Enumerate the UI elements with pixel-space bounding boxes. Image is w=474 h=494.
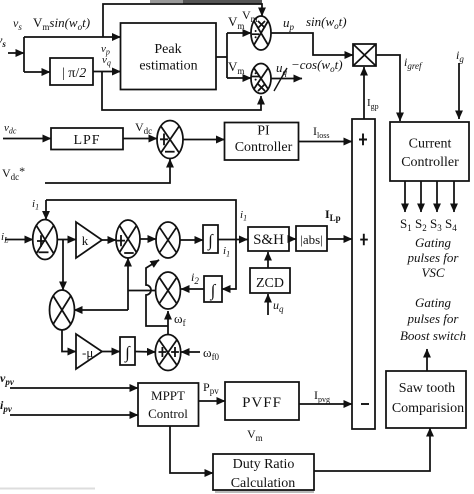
- svg-text:pulses for: pulses for: [407, 250, 460, 265]
- svg-text:∫: ∫: [210, 281, 217, 301]
- svg-text:Control: Control: [148, 406, 188, 421]
- svg-text:Calculation: Calculation: [231, 476, 296, 491]
- svg-text:PI: PI: [257, 124, 270, 139]
- svg-text:∫: ∫: [124, 343, 131, 363]
- svg-text:vs: vs: [0, 33, 6, 49]
- svg-text:Ipvg: Ipvg: [314, 388, 330, 404]
- svg-text:Gating: Gating: [415, 235, 452, 250]
- svg-text:| π/2: | π/2: [62, 66, 86, 81]
- svg-text:Peak: Peak: [154, 42, 181, 57]
- svg-text:Iloss: Iloss: [313, 124, 329, 140]
- svg-text:ipv: ipv: [0, 398, 13, 414]
- svg-text:i1: i1: [240, 209, 247, 223]
- svg-text:uq: uq: [273, 298, 284, 314]
- svg-text:Saw tooth: Saw tooth: [399, 381, 455, 396]
- svg-text:Vmsin(wot): Vmsin(wot): [33, 15, 90, 32]
- svg-text:Vm: Vm: [242, 8, 258, 24]
- svg-text:ωf: ωf: [174, 311, 186, 328]
- svg-text:Vm: Vm: [247, 427, 263, 443]
- svg-text:Vm: Vm: [228, 59, 244, 76]
- svg-text:i2: i2: [191, 270, 199, 286]
- svg-text:vdc: vdc: [4, 122, 17, 136]
- svg-text:sin(wot): sin(wot): [306, 14, 347, 31]
- svg-text:estimation: estimation: [139, 59, 197, 74]
- svg-text:ILp: ILp: [325, 207, 341, 223]
- svg-text:-μ: -μ: [82, 345, 93, 360]
- svg-text:i1: i1: [32, 198, 39, 212]
- svg-text:i1: i1: [223, 245, 230, 259]
- svg-text:uq: uq: [276, 60, 288, 77]
- svg-text:Vdc: Vdc: [135, 120, 152, 136]
- svg-text:Igp: Igp: [367, 97, 379, 111]
- svg-text:igref: igref: [404, 55, 423, 71]
- svg-text:vpv: vpv: [0, 371, 15, 387]
- svg-text:Comparision: Comparision: [392, 401, 464, 416]
- svg-text:ig: ig: [456, 48, 464, 64]
- svg-text:ZCD: ZCD: [256, 276, 284, 291]
- svg-text:up: up: [283, 15, 295, 32]
- svg-text:Gating: Gating: [415, 295, 452, 310]
- svg-text:−cos(wot): −cos(wot): [291, 57, 343, 74]
- svg-text:Vdc*: Vdc*: [2, 164, 25, 182]
- svg-text:Controller: Controller: [235, 140, 293, 155]
- svg-text:k: k: [82, 233, 89, 248]
- svg-text:Ppv: Ppv: [203, 380, 219, 396]
- svg-text:PVFF: PVFF: [242, 395, 282, 411]
- svg-text:∫: ∫: [207, 231, 214, 251]
- svg-text:Current: Current: [409, 137, 452, 152]
- svg-text:VSC: VSC: [421, 265, 444, 280]
- svg-text:Boost switch: Boost switch: [400, 328, 466, 343]
- svg-text:S&H: S&H: [253, 232, 284, 248]
- svg-text:Duty Ratio: Duty Ratio: [233, 457, 295, 472]
- svg-text:LPF: LPF: [73, 133, 100, 148]
- svg-text:Controller: Controller: [401, 155, 459, 170]
- svg-text:ωf0: ωf0: [203, 345, 220, 362]
- svg-text:MPPT: MPPT: [151, 388, 185, 403]
- svg-text:|abs|: |abs|: [300, 232, 323, 247]
- svg-text:S1 S2 S3 S4: S1 S2 S3 S4: [400, 216, 457, 233]
- svg-text:iL: iL: [1, 231, 9, 245]
- svg-text:vs: vs: [13, 16, 22, 32]
- svg-text:pulses for: pulses for: [407, 311, 460, 326]
